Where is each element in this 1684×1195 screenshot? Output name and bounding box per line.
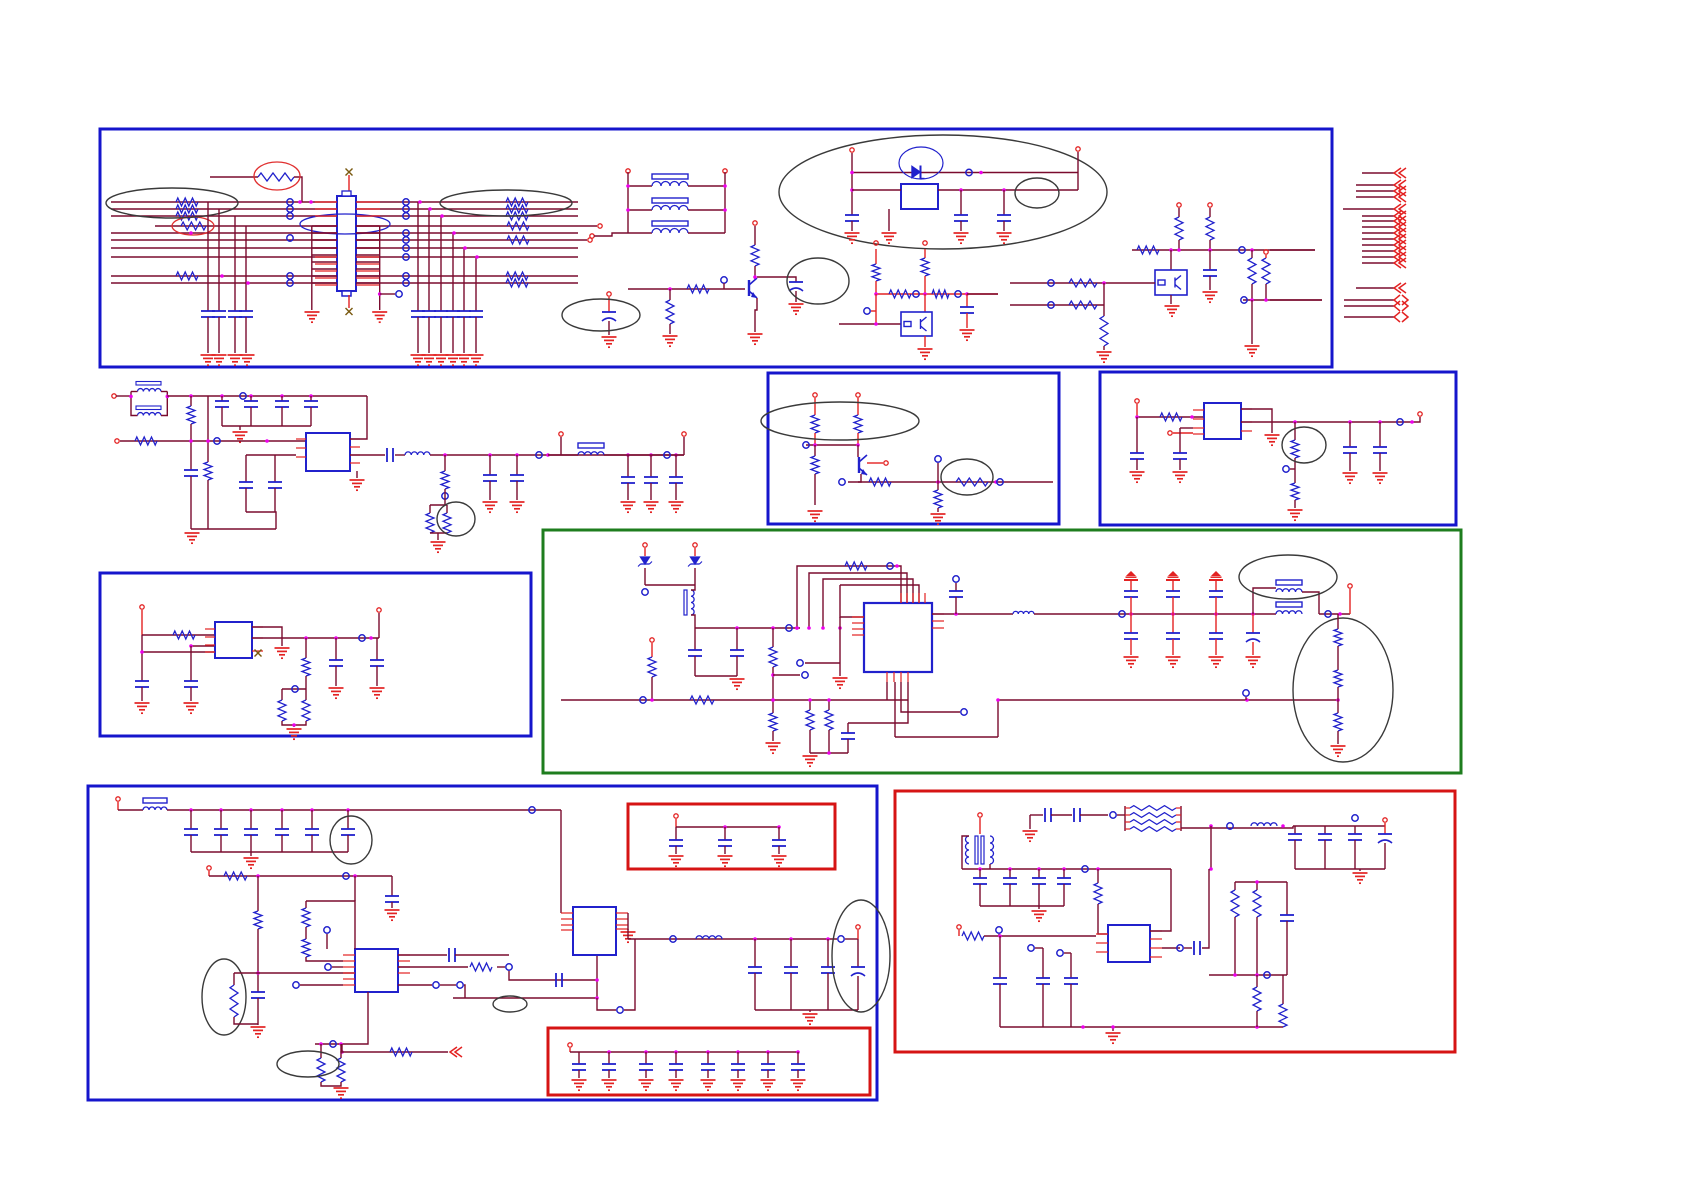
- capacitor vcc C1: [215, 400, 229, 402]
- ground A2: [212, 355, 227, 365]
- connector arrow out low1 chevron: [1394, 283, 1406, 293]
- wire b4 ocap1 low: [335, 666, 337, 686]
- resistor ctrl: [135, 437, 157, 445]
- resistor Q1 collector: [751, 245, 759, 266]
- resistor rc R2: [825, 710, 833, 730]
- pin mid rail: [559, 432, 563, 436]
- no-connect circle b9 rcap: [1352, 815, 1358, 821]
- ferrite bead b6: [143, 798, 167, 803]
- wire bus line 7: [111, 247, 578, 249]
- ground b3 C1: [1130, 472, 1145, 482]
- wire div chain m1: [1337, 646, 1339, 670]
- resistor div R2: [921, 258, 929, 276]
- ground b8 C8: [791, 1080, 806, 1090]
- no-connect circle out tail: [1325, 611, 1331, 617]
- ground b8 C3: [639, 1080, 654, 1090]
- no-connect circle b9 in3: [1057, 950, 1063, 956]
- capacitor out C2: [510, 474, 524, 476]
- ground under connector right: [372, 312, 387, 322]
- red wire div V2: [924, 249, 926, 258]
- zener diode D osc: [912, 166, 925, 179]
- pin fr V2: [1208, 203, 1212, 207]
- wire b6 ocap2 low: [790, 973, 792, 1010]
- wire A3 low: [234, 317, 236, 353]
- red line below connector: [348, 295, 350, 308]
- ellipse highlight pol cap: [562, 299, 640, 331]
- wire dcaps common: [695, 675, 737, 677]
- no-connect circle left col 3: [287, 213, 293, 219]
- wire connector right ground rail: [379, 226, 381, 310]
- pin b6 in: [207, 866, 211, 870]
- ground osc C1: [845, 233, 860, 243]
- wire fr rail: [1132, 249, 1315, 251]
- red wire b9 xfmr: [979, 818, 981, 834]
- transformer T b9: [975, 836, 978, 864]
- wire osc top rail: [852, 172, 1078, 174]
- wire vert drop B5: [463, 248, 465, 311]
- ground vcc caps: [233, 432, 248, 442]
- wire vcc cap 2 drop: [250, 396, 252, 401]
- capacitor bus A4: [239, 310, 253, 312]
- wire b8 cap8 low: [797, 1070, 799, 1078]
- resistor fr R1: [1175, 217, 1183, 240]
- power symbol 2: [1166, 572, 1180, 580]
- capacitor b3 C3: [1343, 446, 1357, 448]
- capacitor b4 C3: [329, 659, 343, 661]
- wire out2 cap1 low: [627, 483, 629, 500]
- wire dtr input: [839, 323, 901, 325]
- no-connect circle b6 out2: [506, 964, 512, 970]
- red wire d2: [694, 548, 696, 556]
- no-connect circle cap top: [953, 576, 959, 582]
- red wire divider rail: [876, 293, 998, 295]
- wire B4 low: [452, 317, 454, 353]
- no-connect circle vcc rail: [240, 393, 246, 399]
- wire b9 mcaps common: [980, 905, 1064, 907]
- wire vert drop B3: [440, 216, 442, 311]
- capacitor osc C1: [845, 214, 859, 216]
- wire outcap2 low: [516, 481, 518, 500]
- wire connector left ground rail: [311, 226, 313, 310]
- no-connect circle b6 in: [343, 873, 349, 879]
- connector arrow pair2 chevron: [1394, 301, 1408, 311]
- inductor L vertical with core bar: [684, 590, 687, 615]
- capacitor fr C: [1203, 269, 1217, 271]
- capacitor b8 C7: [761, 1063, 775, 1065]
- wire d2 low: [694, 568, 696, 585]
- ground b6 C7: [385, 910, 400, 920]
- wire b4 fb mid: [305, 676, 307, 700]
- wire b9 icap2 link: [1035, 947, 1043, 949]
- ellipse highlight coupling cap: [787, 258, 849, 304]
- red wire b9 rcap pin: [1384, 823, 1386, 834]
- resistor b2 R4: [869, 478, 891, 486]
- resistor fr R5: [1262, 258, 1270, 284]
- no-connect circle b9 in2: [1028, 945, 1034, 951]
- wire b6 u7 out vert: [627, 929, 629, 939]
- wire b8 rail: [570, 1051, 798, 1053]
- capacitor b7 C2: [718, 839, 732, 841]
- wire vert drop B1: [417, 202, 419, 311]
- no-connect circle b9 top: [1110, 812, 1116, 818]
- wire b3 right top: [1241, 409, 1272, 433]
- wire b9 top rail3: [1080, 814, 1108, 816]
- no-connect circle ic bottom: [961, 709, 967, 715]
- connector arrow out 4 chevron: [1394, 192, 1406, 202]
- wire Q1 collector upper: [754, 226, 756, 245]
- wire sense mid: [444, 489, 446, 505]
- wire reg out: [350, 454, 385, 456]
- wire b9 rc rail: [1293, 825, 1385, 827]
- connector arrow pair1 chevron: [1394, 295, 1408, 305]
- resistor chain R1: [1334, 629, 1342, 646]
- resistor b9 R1: [1094, 883, 1102, 904]
- pin ferrite rail left: [626, 169, 630, 173]
- no-connect circle dtr2 in B: [1048, 302, 1054, 308]
- resistor b2 R1: [811, 415, 819, 433]
- wire out rail: [430, 454, 684, 456]
- resistor b6 Ro: [470, 963, 492, 971]
- ground out C1: [483, 502, 498, 512]
- wire b2 left down: [814, 445, 816, 456]
- wire b6 vert2: [305, 901, 307, 908]
- ground b3 C3: [1343, 473, 1358, 483]
- ground B3: [434, 355, 449, 365]
- resistor b6 Rv1: [302, 908, 310, 927]
- junction dot demod mid: [771, 673, 775, 677]
- wire b6 u6 out3d: [464, 985, 465, 998]
- ground out2 C3: [669, 502, 684, 512]
- connector arrow out 2 chevron: [1394, 180, 1406, 190]
- resistor b4 R2: [302, 658, 310, 676]
- no-connect circle b9 in: [996, 927, 1002, 933]
- wire fb caps top: [246, 454, 296, 456]
- wire fr V1 low: [1178, 240, 1180, 250]
- ground filter pol: [1246, 657, 1261, 667]
- red wire div cap drop: [966, 294, 968, 307]
- wire dres mid: [772, 667, 774, 713]
- wire b9 icap1 drop: [999, 936, 1001, 978]
- wire loopC: [823, 579, 913, 628]
- wire out rail end up: [683, 437, 685, 455]
- resistor on bus line1 right: [506, 198, 528, 206]
- wire b6 caps gnd stub: [250, 852, 252, 856]
- resistor left branch: [187, 406, 195, 424]
- wire long bottom rail right: [998, 699, 1338, 701]
- connector arrow bus 4: [1362, 232, 1394, 234]
- no-connect circle connector: [396, 291, 402, 297]
- resistor demod R1: [769, 647, 777, 667]
- wire b6 out end: [845, 938, 858, 940]
- capacitor b6 out C3: [821, 966, 835, 968]
- ground b6 under: [334, 1088, 349, 1098]
- capacitor b8 C8: [791, 1063, 805, 1065]
- ellipse highlight left bus: [106, 188, 238, 218]
- block border B3 audio amp: [1100, 372, 1456, 525]
- wire div chain low: [1337, 731, 1339, 744]
- ground b7 C3: [772, 856, 787, 866]
- wire out2 cap1 drop: [627, 455, 629, 477]
- capacitor b9 iC1: [993, 977, 1007, 979]
- capacitor bus A2: [212, 310, 226, 312]
- connector arrow bus 6 chevron: [1394, 240, 1406, 250]
- no-connect circle loopA: [887, 563, 893, 569]
- x-mark b4 ic: [255, 650, 262, 657]
- resistor on bus line2 right: [506, 205, 528, 213]
- choke frame left vert: [131, 392, 138, 416]
- transformer winding right: [990, 836, 994, 864]
- wire out2 cap2 drop: [650, 455, 652, 477]
- wire bus line 6: [111, 239, 587, 241]
- ground Q1 emitter: [748, 334, 763, 344]
- wire dcap2 low: [736, 656, 738, 676]
- wire b9 pack out: [1181, 826, 1293, 828]
- resistor b2 R5 in ellipse: [956, 478, 988, 486]
- wire bus line 1: [111, 201, 578, 203]
- ground b8 C5: [701, 1080, 716, 1090]
- ferrite bead out: [578, 443, 604, 448]
- wire fr right low: [1251, 284, 1253, 300]
- no-connect circle right col 9: [403, 280, 409, 286]
- connector arrow bus 3: [1362, 226, 1394, 228]
- capacitor bus B1: [411, 310, 425, 312]
- wire bus line 8: [111, 256, 578, 258]
- resistor demod R3: [648, 657, 656, 677]
- ground out2 C1: [621, 502, 636, 512]
- connector arrow bus 2 chevron: [1394, 216, 1406, 226]
- wire out2 cap3 low: [675, 483, 677, 500]
- capacitor filter top 1: [1124, 590, 1138, 592]
- ground b9 mcaps: [1032, 911, 1047, 921]
- wire fr V1: [1178, 208, 1180, 217]
- regulator pin stubs: [296, 438, 306, 440]
- ground demod res: [766, 743, 781, 753]
- wire fr gnd drop: [1251, 300, 1253, 344]
- wire ferrite rail left: [627, 172, 629, 233]
- red wire b2 v2b: [857, 433, 859, 445]
- ferrite bead FB3: [652, 221, 688, 226]
- wire b4 fb cross: [282, 688, 306, 690]
- wire b9 rcap1 drop: [1294, 826, 1296, 834]
- junction dots b9 fb: [1233, 973, 1237, 977]
- connector arrow out 1: [1362, 172, 1394, 174]
- wire b6 ell res top: [233, 973, 235, 985]
- wire b2 vert: [937, 463, 939, 490]
- wire b9 icap3 link: [1064, 952, 1071, 954]
- wire rc r1 low: [809, 730, 811, 753]
- junction dots osc right: [959, 188, 963, 192]
- IC U7 right pin stubs: [616, 912, 628, 914]
- wire b9 rcap3 drop: [1354, 826, 1356, 834]
- wire b8 cap6 low: [737, 1070, 739, 1078]
- ground regulator: [350, 480, 365, 490]
- wire fr cap drop: [1209, 250, 1211, 270]
- pin ctrl input: [115, 439, 119, 443]
- x-mark top of connector: [346, 169, 353, 176]
- connector wrap ladder right: [356, 225, 380, 227]
- ground dtr: [918, 349, 933, 359]
- wire b2 cross: [806, 444, 858, 446]
- wire fb cap2 up: [274, 455, 276, 482]
- no-connect circle left col 4: [287, 235, 293, 241]
- wire dtr2 input row B: [1010, 304, 1104, 306]
- wire reg top feedback: [350, 396, 367, 439]
- no-connect circle right col 4: [403, 230, 409, 236]
- wire connector nc stub: [380, 293, 395, 295]
- pin d1: [643, 543, 647, 547]
- pin stub bottom-left of ferrite block: [590, 234, 594, 238]
- ground b3 fb: [1288, 510, 1303, 520]
- wire b6 cap9 rail: [540, 979, 597, 981]
- wire Q1 collector lower: [754, 266, 756, 279]
- wire b6 u6 pin930: [326, 934, 328, 949]
- wire b6 cap5 drop: [311, 810, 313, 829]
- pin b9 xfmr: [978, 813, 982, 817]
- no-connect circle long rail r: [1243, 690, 1249, 696]
- IC U7: [573, 907, 616, 955]
- ground bottom rail: [185, 533, 200, 543]
- capacitor b4 C1: [135, 680, 149, 682]
- capacitor b9 fb C: [1280, 914, 1294, 916]
- pin out rail end: [682, 432, 686, 436]
- red wire b2 q out: [867, 462, 883, 464]
- red wire b7: [675, 819, 677, 827]
- no-connect circle right col 5: [403, 237, 409, 243]
- wire b6 ur1 top: [320, 1044, 322, 1058]
- IC U5 top pin stubs: [900, 593, 902, 603]
- no-connect circle b6 u7 bottom: [617, 1007, 623, 1013]
- connector arrow pair1: [1344, 299, 1394, 301]
- ferrite bead demod lower: [1276, 602, 1302, 607]
- wire fr V2: [1209, 208, 1211, 217]
- wire b4 fb bottom: [282, 721, 306, 725]
- no-connect circle demod mid: [802, 672, 808, 678]
- wire fb cap2 low: [274, 488, 276, 512]
- IC U8 right pin stubs: [1150, 930, 1162, 932]
- wire out to coil: [395, 454, 405, 456]
- blue ellipse around connector top: [300, 214, 390, 234]
- pin b4 out: [377, 608, 381, 612]
- wire b4 in rail: [142, 634, 215, 636]
- connector arrow out 5 chevron: [1394, 204, 1406, 214]
- capacitor out2 C2: [644, 476, 658, 478]
- wire to top-left resistor: [210, 176, 258, 178]
- wire b6 vert right: [596, 955, 598, 998]
- resistor rc R1: [806, 710, 814, 730]
- connector arrow out low2 chevron: [1394, 312, 1408, 322]
- wire b6 ocap2 drop: [790, 939, 792, 967]
- capacitor rc C: [841, 732, 855, 734]
- wire out2 cap2 low: [650, 483, 652, 500]
- red wire pcap1 mid: [1130, 597, 1132, 614]
- pin d2: [693, 543, 697, 547]
- capacitor b7 C3: [772, 839, 786, 841]
- capacitor out C1: [483, 474, 497, 476]
- resistor on bus line4 right: [507, 222, 529, 230]
- IC U7 left pin stubs: [561, 912, 573, 914]
- junction dots b9 bottom: [1111, 1025, 1115, 1029]
- wire rc bottom: [810, 752, 848, 754]
- resistor b2 R6: [934, 490, 942, 508]
- ground b4 C4: [370, 688, 385, 698]
- no-connect circle right col 7: [403, 254, 409, 260]
- wire b9 u8 cap out: [1202, 869, 1209, 948]
- junction dots b2 cross: [813, 443, 817, 447]
- capacitor b6 pol: [851, 966, 865, 968]
- ferrite bead demod upper: [1276, 580, 1302, 585]
- wire b9 top rail1: [1030, 814, 1043, 816]
- ellipse highlight right bus: [440, 190, 572, 216]
- junction dots b8: [607, 1050, 611, 1054]
- IC U5 right pin stubs: [932, 613, 944, 615]
- wire b6 vcc drop right: [560, 810, 562, 913]
- capacitor b6 C1: [184, 828, 198, 830]
- block border B8 bypass caps 2: [548, 1028, 870, 1095]
- wire b9 fb rail top: [1235, 881, 1287, 883]
- capacitor b9 rC3: [1348, 833, 1362, 835]
- wire osc V+ vertical: [851, 153, 853, 215]
- junction dots rc: [808, 698, 812, 702]
- ground under connector left: [305, 312, 320, 322]
- red wire div V1: [875, 249, 877, 264]
- wire reg gnd stub: [356, 471, 358, 478]
- ellipse highlight b2 top: [761, 402, 919, 440]
- resistor long rail: [690, 696, 714, 704]
- wire vcc cap 2 low: [250, 407, 252, 426]
- ellipse highlight b3 fb: [1282, 427, 1326, 463]
- capacitor osc C2: [954, 214, 968, 216]
- junction dots b4 out: [304, 636, 308, 640]
- connector arrow bus 3 chevron: [1394, 222, 1406, 232]
- pin b3 in: [1135, 399, 1139, 403]
- resistor b4 R1: [173, 631, 195, 639]
- pin b2 V2: [856, 393, 860, 397]
- wire b2 vert low: [937, 508, 939, 512]
- red wire demod out: [1349, 589, 1351, 614]
- wire b9 icap1 low: [999, 984, 1001, 1027]
- wire out rail demod 2: [1034, 613, 1276, 615]
- resistor b9 R2: [1231, 890, 1239, 917]
- common-mode choke L1: [136, 382, 161, 386]
- wire b3 out pin: [1414, 417, 1420, 422]
- wire B2 low: [428, 317, 430, 353]
- wire rc cap low: [847, 739, 849, 753]
- wire b9 fb mid rail: [1209, 974, 1287, 976]
- ground fr C: [1203, 292, 1218, 302]
- capacitor b8 C6: [731, 1063, 745, 1065]
- resistor demod R2: [769, 713, 777, 731]
- ground b3 C4: [1373, 473, 1388, 483]
- resistor div R3: [889, 290, 911, 298]
- capacitor bus B2: [422, 310, 436, 312]
- wire b9 icap3 drop: [1070, 953, 1072, 978]
- connector arrow bus 7: [1362, 250, 1394, 252]
- small ellipse highlight right of osc: [1015, 178, 1059, 208]
- wire Q1 base rail: [628, 288, 745, 290]
- resistor fr R2: [1206, 217, 1214, 240]
- wire b8 cap5 low: [707, 1070, 709, 1078]
- wire b6 cap4 low: [281, 835, 283, 852]
- wire dtr2 input: [1010, 282, 1155, 284]
- junction dots b9 mid rail: [978, 867, 982, 871]
- capacitor b9 iC3: [1064, 977, 1078, 979]
- ellipse highlight b2 R5: [941, 459, 993, 495]
- wire b7 cap2 low: [724, 846, 726, 854]
- wire b3 fb circ stub: [1290, 468, 1295, 470]
- wire B3 low: [440, 317, 442, 353]
- wire b6 ocap3 drop: [827, 939, 829, 967]
- wire stub to ferrite block: [594, 233, 628, 236]
